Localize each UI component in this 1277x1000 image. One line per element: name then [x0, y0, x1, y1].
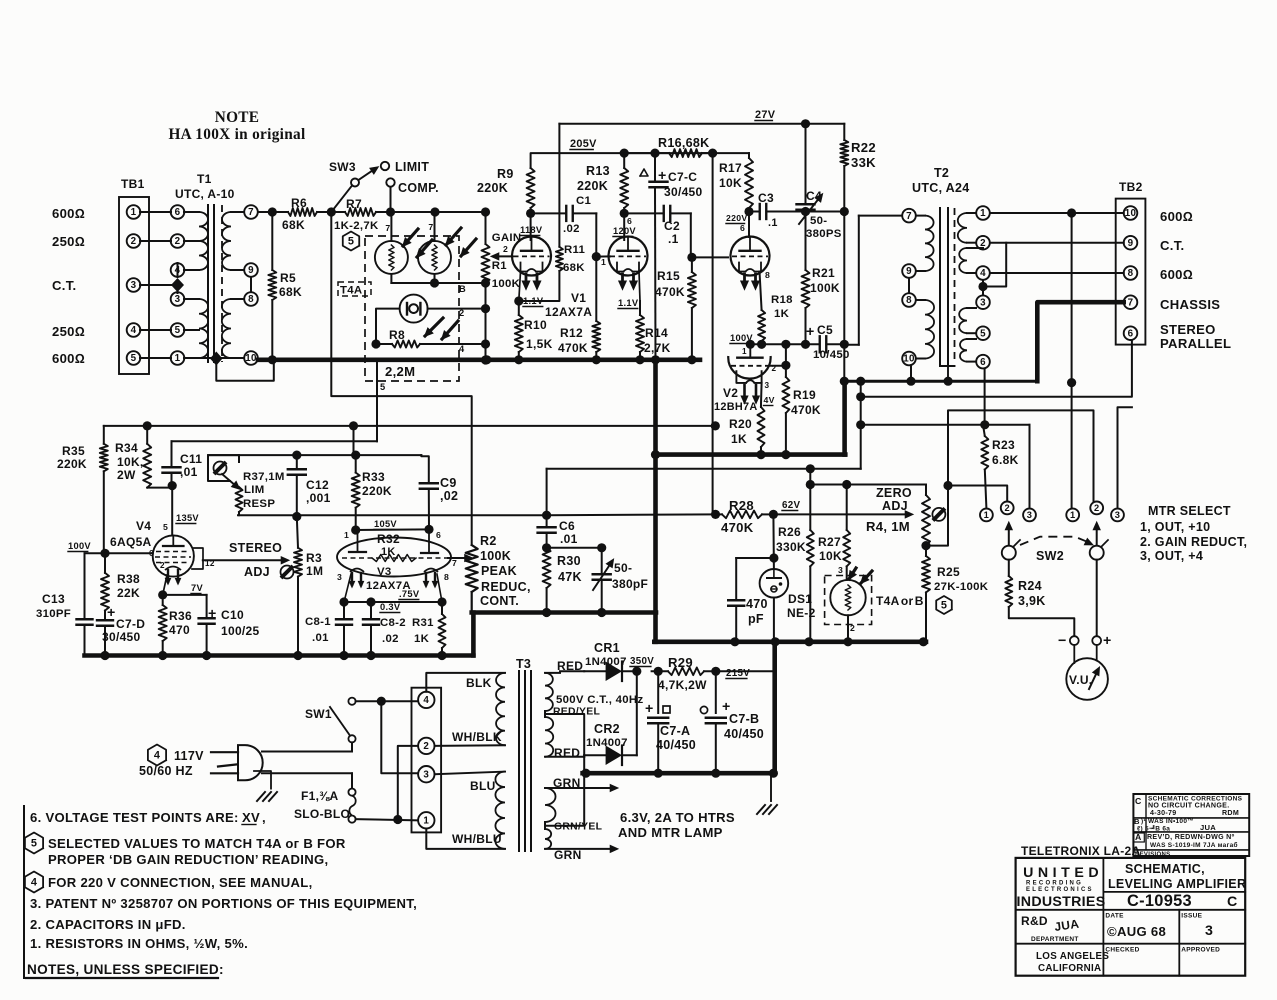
svg-text:5: 5 — [941, 600, 947, 612]
svg-text:3: 3 — [337, 572, 342, 582]
svg-text:C4: C4 — [806, 189, 822, 203]
capacitor C13 — [84, 553, 86, 618]
svg-text:10: 10 — [1125, 208, 1137, 219]
svg-text:CHECKED: CHECKED — [1105, 947, 1139, 954]
heavy chassis wire TB2-7 — [1037, 302, 1123, 381]
svg-text:V2: V2 — [723, 386, 738, 400]
node 350V — [632, 667, 641, 676]
svg-text:5: 5 — [163, 522, 168, 532]
svg-text:R18: R18 — [771, 294, 793, 306]
resistor R35 — [103, 426, 105, 444]
svg-text:1M: 1M — [306, 564, 323, 578]
svg-text:380PS: 380PS — [806, 228, 842, 240]
svg-text:4: 4 — [423, 695, 429, 706]
line 105V node — [356, 528, 429, 531]
svg-text:40/450: 40/450 — [656, 738, 696, 752]
T1 primary terminal 3 — [171, 292, 185, 306]
svg-text:C11: C11 — [180, 452, 202, 466]
svg-text:3: 3 — [423, 769, 429, 780]
svg-text:R11: R11 — [564, 244, 586, 256]
V2b cathode arrows — [743, 385, 746, 398]
gain reduct meter line — [926, 410, 1094, 545]
T2 sec 4-3 junction — [982, 280, 984, 295]
triangle marker A — [640, 169, 648, 176]
node 215V — [711, 667, 720, 676]
svg-text:600Ω: 600Ω — [52, 351, 85, 366]
V3 cathode bus — [344, 601, 442, 603]
svg-text:3: 3 — [1115, 510, 1120, 520]
svg-text:4: 4 — [31, 877, 37, 889]
svg-text:1: 1 — [175, 353, 181, 364]
svg-text:,01: ,01 — [180, 465, 198, 479]
T1 primary terminal 4 — [171, 263, 185, 277]
main ground bus top — [258, 357, 656, 362]
pot R2 peak reduction — [466, 545, 478, 592]
svg-text:1K: 1K — [414, 633, 430, 645]
T2 primary terminal 8 — [902, 293, 916, 307]
node C7-C top — [650, 149, 659, 158]
svg-text:3,9K: 3,9K — [1018, 594, 1046, 608]
svg-text:3: 3 — [838, 565, 843, 575]
svg-text:R33: R33 — [362, 470, 385, 484]
zero adj feed — [809, 469, 811, 485]
svg-text:220K: 220K — [577, 179, 608, 193]
svg-text:INDUSTRIES: INDUSTRIES — [1017, 894, 1106, 910]
svg-text:C13: C13 — [42, 592, 65, 606]
TB2 terminal 9 — [1124, 236, 1138, 250]
svg-text:R26: R26 — [778, 525, 801, 539]
node T1-10 junction — [268, 355, 277, 364]
pot R37 LIM RESP — [208, 455, 238, 481]
svg-text:R35: R35 — [62, 444, 85, 458]
svg-text:STEREO: STEREO — [229, 541, 282, 555]
plug ground — [254, 771, 271, 789]
T1 secondary terminal 8 — [244, 292, 258, 306]
resistor R38 — [104, 553, 106, 573]
EL panel lamp — [400, 295, 428, 323]
svg-text:2: 2 — [160, 561, 165, 570]
resistor R24 — [1008, 560, 1010, 576]
svg-text:62V: 62V — [782, 500, 800, 511]
power terminal 3 — [418, 766, 434, 782]
svg-text:0.3V: 0.3V — [380, 602, 401, 612]
svg-text:2: 2 — [131, 236, 137, 247]
svg-text:.75V: .75V — [399, 589, 420, 599]
heavy sidechain bus — [472, 610, 656, 615]
svg-text:C12: C12 — [306, 478, 329, 492]
svg-text:600Ω: 600Ω — [1160, 267, 1193, 282]
wire R28 to R4 wiper — [773, 513, 905, 515]
photocell right light arrows — [446, 228, 461, 245]
TB1 terminal 2 — [127, 234, 141, 248]
hexagon 5 select — [343, 232, 359, 251]
svg-text:600Ω: 600Ω — [1160, 209, 1193, 224]
svg-text:CONT.: CONT. — [480, 594, 519, 608]
svg-text:2: 2 — [459, 308, 464, 318]
svg-text:APPROVED: APPROVED — [1181, 947, 1220, 954]
svg-text:WH/BLK: WH/BLK — [452, 730, 502, 744]
wire heater top — [545, 787, 610, 789]
svg-text:V.U.: V.U. — [1069, 673, 1092, 687]
resistor R20 — [758, 407, 765, 447]
resistor R14 — [636, 315, 644, 352]
svg-text:120V: 120V — [613, 226, 636, 236]
svg-text:.1: .1 — [668, 232, 679, 246]
svg-text:6.3V, 2A TO HTRS: 6.3V, 2A TO HTRS — [620, 810, 735, 825]
T1 secondary winding lower — [222, 299, 231, 358]
svg-text:GRN/YEL: GRN/YEL — [554, 822, 603, 833]
svg-text:3: 3 — [175, 294, 181, 305]
svg-text:,02: ,02 — [440, 489, 458, 503]
T1 secondary terminal 7 — [244, 205, 258, 219]
svg-text:7V: 7V — [191, 583, 203, 593]
svg-text:1,5K: 1,5K — [526, 337, 553, 351]
T3 secondary heater — [545, 788, 556, 822]
capacitor C7-B — [715, 671, 717, 713]
TB2 terminal 10 — [1124, 206, 1138, 220]
revisions bar — [1132, 850, 1134, 858]
T1 primary terminal 2 — [171, 234, 185, 248]
HV center tap wire — [545, 714, 584, 773]
svg-text:2,2M: 2,2M — [385, 364, 415, 379]
svg-text:C8-1: C8-1 — [305, 616, 331, 628]
hexagon 5 R25 — [936, 596, 952, 614]
svg-text:AND MTR LAMP: AND MTR LAMP — [618, 825, 723, 840]
svg-text:C8-2: C8-2 — [380, 617, 406, 629]
SW3 LIMIT contact — [381, 162, 389, 170]
svg-text:C2: C2 — [664, 219, 680, 233]
svg-text:5: 5 — [175, 325, 181, 336]
svg-text:CHASSIS: CHASSIS — [1160, 297, 1220, 312]
svg-text:33K: 33K — [851, 155, 876, 170]
wire heater mid — [545, 773, 584, 826]
svg-text:R34: R34 — [115, 441, 138, 455]
svg-text:C6: C6 — [559, 519, 575, 533]
svg-text:2. CAPACITORS IN μFD.: 2. CAPACITORS IN μFD. — [30, 917, 186, 932]
heavy bus R2 to ground — [471, 613, 476, 656]
svg-text:5: 5 — [348, 236, 354, 248]
C11 sidechain line — [172, 440, 378, 442]
svg-text:CR1: CR1 — [594, 641, 620, 655]
svg-text:7: 7 — [248, 207, 254, 218]
svg-text:R15: R15 — [657, 269, 680, 283]
svg-text:7: 7 — [1128, 297, 1134, 308]
svg-text:R37,1M: R37,1M — [243, 471, 285, 483]
heavy bus B+ — [654, 452, 845, 457]
svg-text:68K: 68K — [279, 285, 302, 299]
svg-text:2: 2 — [175, 236, 181, 247]
photocell left — [375, 241, 408, 274]
svg-text:1: 1 — [984, 510, 989, 520]
svg-text:U N I T E D: U N I T E D — [1023, 865, 1099, 881]
svg-text:R20: R20 — [729, 417, 752, 431]
title divider h2 — [1016, 909, 1246, 911]
R1 wiper arrow — [497, 255, 513, 257]
svg-text:350V: 350V — [630, 656, 654, 667]
power terminal 1 — [418, 812, 434, 828]
T1 secondary terminal 10 — [244, 351, 258, 365]
svg-text:FOR 220 V CONNECTION, SEE MANU: FOR 220 V CONNECTION, SEE MANUAL, — [48, 875, 313, 890]
V1b cathode node — [639, 272, 640, 302]
revision block — [1133, 794, 1249, 856]
svg-text:REDUC,: REDUC, — [481, 580, 531, 594]
wire 350V junction — [636, 671, 638, 755]
T1 secondary terminal 9 — [244, 263, 258, 277]
svg-text:C9: C9 — [440, 476, 457, 490]
svg-text:1K: 1K — [774, 308, 790, 320]
svg-text:4V: 4V — [764, 395, 775, 405]
SW2 contact 2b — [1090, 502, 1103, 515]
svg-text:DS1: DS1 — [788, 592, 812, 606]
T2 primary 9-8 link — [908, 278, 910, 293]
svg-text:1: 1 — [742, 347, 747, 356]
lamp left wire — [376, 309, 400, 344]
resistor R11 — [556, 247, 563, 271]
T1 core — [207, 205, 209, 362]
T4 meter dashed box — [825, 576, 872, 625]
svg-text:V3: V3 — [377, 566, 392, 578]
V3 grid to R2 — [448, 557, 466, 559]
main ground bus lower — [85, 653, 474, 658]
svg-text:8: 8 — [765, 270, 770, 280]
T1 secondary winding upper — [222, 212, 231, 270]
svg-text:UTC, A-10: UTC, A-10 — [175, 187, 235, 201]
svg-text:100K: 100K — [480, 549, 511, 563]
svg-text:COMP.: COMP. — [398, 181, 439, 195]
svg-text:22K: 22K — [117, 586, 140, 600]
svg-text:3: 3 — [131, 280, 137, 291]
svg-text:XV: XV — [242, 810, 260, 825]
capacitor C11 — [171, 441, 173, 466]
svg-text:6: 6 — [980, 357, 986, 368]
svg-text:135V: 135V — [176, 513, 199, 523]
svg-text:SCHEMATIC,: SCHEMATIC, — [1125, 862, 1205, 876]
svg-text:3: 3 — [1205, 923, 1213, 939]
wire SW1 lower — [351, 742, 353, 751]
svg-text:470: 470 — [169, 623, 190, 637]
capacitor C12 — [296, 455, 298, 468]
svg-text:SW2: SW2 — [1036, 549, 1064, 563]
wire T4A node to R1 — [485, 212, 487, 244]
svg-text:8: 8 — [248, 294, 254, 305]
svg-text:1, OUT, +10: 1, OUT, +10 — [1140, 520, 1210, 534]
svg-text:220V: 220V — [726, 213, 748, 223]
TB1 terminal 4 — [127, 323, 141, 337]
svg-text:STEREO: STEREO — [1160, 322, 1216, 337]
svg-text:C-10953: C-10953 — [1127, 892, 1192, 910]
wire HV low tap — [545, 756, 584, 758]
resistor R31 — [441, 602, 443, 614]
svg-text:250Ω: 250Ω — [52, 234, 85, 249]
T1 sec 9-8 link — [250, 277, 252, 292]
svg-text:JUA: JUA — [1200, 823, 1216, 832]
svg-text:10K,: 10K, — [117, 455, 144, 469]
T4A dashed box — [365, 236, 459, 381]
svg-text:3. PATENT Nº 3258707 ON PORTIO: 3. PATENT Nº 3258707 ON PORTIONS OF THIS… — [30, 896, 417, 911]
svg-text:1N4007: 1N4007 — [586, 737, 628, 749]
svg-text:2: 2 — [1094, 503, 1099, 513]
svg-text:5: 5 — [980, 328, 986, 339]
svg-text:C7-D: C7-D — [116, 617, 145, 631]
27V rail left leg — [558, 124, 560, 247]
resistor R15 — [688, 272, 696, 308]
svg-text:215V: 215V — [726, 668, 750, 679]
svg-text:1.1V: 1.1V — [618, 298, 639, 308]
R37 top line — [208, 454, 421, 456]
svg-text:4: 4 — [980, 268, 986, 279]
wire R7 to T4A node — [376, 211, 486, 213]
T3 core — [518, 671, 520, 851]
resistor R19 — [785, 344, 787, 377]
svg-text:50-: 50- — [614, 561, 632, 575]
meter feed line — [861, 424, 1030, 426]
svg-text:C: C — [1227, 894, 1238, 910]
resistor R27 — [846, 485, 848, 531]
wire T2-2 to TB2-9 — [990, 242, 1124, 244]
T1 primary terminal 1 — [171, 351, 185, 365]
V4 output wire — [203, 559, 281, 561]
svg-text:220K: 220K — [57, 457, 87, 471]
svg-text:R22: R22 — [851, 140, 876, 155]
wire T2-10 stub — [910, 365, 912, 381]
resistor R21 — [802, 270, 810, 308]
resistor R25 — [922, 556, 930, 592]
svg-text:10K: 10K — [719, 176, 742, 190]
svg-text:100V: 100V — [68, 541, 91, 551]
svg-text:RESP: RESP — [243, 498, 275, 510]
wire output sense column — [860, 381, 862, 469]
capacitor C2 — [624, 212, 663, 214]
terminal strip power — [412, 688, 442, 833]
V2b cathode to R20 — [760, 383, 763, 407]
svg-text:7: 7 — [385, 223, 390, 233]
svg-text:205V: 205V — [570, 138, 597, 150]
svg-text:1: 1 — [980, 208, 986, 219]
T1 primary winding lower — [199, 299, 208, 358]
resistor R30 — [543, 548, 551, 588]
wire TB1-4 to T1-5 — [140, 329, 171, 331]
capacitor C8-2 — [370, 602, 372, 618]
svg-text:+: + — [645, 701, 654, 717]
T2 primary terminal 7 — [902, 209, 916, 223]
svg-text:8: 8 — [1128, 268, 1134, 279]
svg-text:.02: .02 — [382, 633, 399, 645]
note 4 hexagon — [25, 872, 43, 893]
bus 381 — [843, 380, 1037, 383]
C2 to V2 grid — [690, 213, 692, 257]
C1 to R12 wire — [595, 213, 597, 256]
capacitor C6 — [546, 515, 548, 526]
R1 column — [485, 283, 487, 360]
resistor R22 — [843, 124, 845, 140]
svg-text:470: 470 — [746, 597, 768, 611]
wire R16 to R17 — [713, 152, 749, 154]
T2 primary terminal 9 — [902, 264, 916, 278]
node V2a plate — [744, 207, 753, 216]
svg-text:R16,68K: R16,68K — [658, 136, 709, 150]
svg-text:12AX7A: 12AX7A — [545, 305, 592, 319]
wire plug to SW1 — [262, 751, 352, 753]
T2 primary winding lower — [925, 300, 934, 359]
SW2 wiper B — [1090, 546, 1104, 560]
svg-text:pF: pF — [748, 612, 764, 626]
V2b grid exit — [769, 365, 786, 367]
diode CR2 — [584, 754, 605, 756]
T2 secondary terminal 5 — [976, 326, 990, 340]
svg-text:+: + — [1103, 633, 1112, 649]
photocell left light arrows — [403, 229, 418, 246]
wire 3b up — [1118, 407, 1132, 508]
capacitor 470pF — [736, 557, 774, 559]
svg-text:2: 2 — [503, 244, 508, 254]
resistor R10 — [515, 315, 523, 352]
svg-text:9: 9 — [1128, 238, 1134, 249]
SW2 gang dashed link — [1020, 537, 1090, 545]
svg-text:R38: R38 — [117, 572, 140, 586]
svg-text:ADJ: ADJ — [882, 499, 908, 513]
V1b plate wire — [623, 213, 625, 240]
svg-text:5: 5 — [31, 838, 37, 850]
svg-text:40/450: 40/450 — [724, 727, 764, 741]
T1 primary terminal 6 — [171, 205, 185, 219]
svg-text:2,7K: 2,7K — [644, 341, 671, 355]
wire term3 to winding — [435, 772, 506, 775]
resistor R18 — [760, 272, 762, 311]
svg-text:DEPARTMENT: DEPARTMENT — [1031, 936, 1079, 943]
svg-text:F1,⅜A: F1,⅜A — [301, 789, 339, 803]
svg-text:TB1: TB1 — [121, 177, 145, 191]
svg-text:68K: 68K — [282, 218, 305, 232]
T2 core ground — [940, 365, 955, 367]
title divider v2 — [1178, 910, 1180, 976]
capacitor C3 — [749, 211, 760, 213]
feedback line — [546, 469, 548, 515]
svg-text:5: 5 — [131, 353, 137, 364]
svg-text:1: 1 — [1070, 510, 1075, 520]
wire term2 to winding — [435, 744, 506, 747]
svg-text:R E C O R D I N G: R E C O R D I N G — [1026, 881, 1081, 887]
TB1 terminal 1 — [127, 205, 141, 219]
svg-text:47K: 47K — [558, 570, 582, 584]
heavy vert right — [843, 344, 845, 381]
T4A pin5 wire — [376, 360, 378, 441]
svg-text:HA 100X in original: HA 100X in original — [168, 126, 305, 143]
T1 CT diamond junction — [171, 278, 184, 292]
T4 meter light arrows — [849, 568, 856, 579]
title divider v1 — [1102, 858, 1104, 976]
svg-text:2: 2 — [1004, 503, 1009, 513]
svg-text:R6: R6 — [291, 196, 307, 210]
pot R1 GAIN — [482, 244, 490, 283]
resistor R12 — [592, 321, 600, 352]
svg-text:3: 3 — [1027, 510, 1032, 520]
svg-text:7: 7 — [906, 211, 912, 222]
svg-text:220K: 220K — [477, 181, 508, 195]
svg-text:ISSUE: ISSUE — [1181, 913, 1202, 920]
tube V4 — [153, 535, 194, 576]
svg-text:LIMIT: LIMIT — [395, 160, 429, 174]
svg-text:1K-2,7K: 1K-2,7K — [334, 220, 379, 232]
svg-text:−: − — [1058, 633, 1067, 649]
R16 junction column — [712, 153, 714, 514]
svg-text:.02: .02 — [563, 223, 580, 235]
svg-text:R25: R25 — [937, 565, 960, 579]
V1a plate wire — [530, 213, 532, 240]
svg-text:PEAK: PEAK — [481, 564, 517, 578]
wire TB2-6 stereo parallel — [861, 340, 1132, 397]
wire R24 to meter minus — [1009, 607, 1075, 636]
svg-text:1. RESISTORS IN OHMS, ½W, 5%.: 1. RESISTORS IN OHMS, ½W, 5%. — [30, 936, 248, 951]
